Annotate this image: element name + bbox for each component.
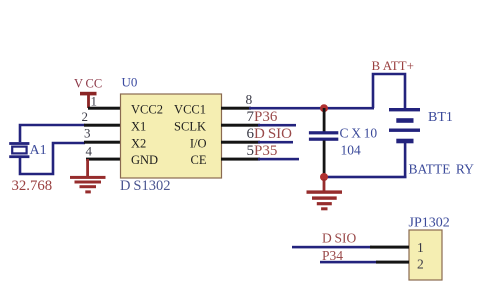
wire: crystal bottom loop to X2 bbox=[20, 143, 85, 174]
svg-text:VCC1: VCC1 bbox=[174, 103, 206, 117]
svg-text:CE: CE bbox=[191, 153, 207, 167]
svg-text:D S1302: D S1302 bbox=[120, 178, 170, 194]
svg-text:BATTE RY: BATTE RY bbox=[409, 162, 475, 177]
capacitor CX10 stem top bbox=[323, 108, 326, 132]
svg-text:1: 1 bbox=[91, 94, 98, 109]
wire: P34 net bbox=[320, 261, 378, 264]
wire: pin6 stub bbox=[221, 141, 260, 144]
wire: pin6 net DSIO bbox=[258, 141, 293, 144]
wire: pin7 stub bbox=[221, 124, 260, 127]
wire: JP pin1 stub bbox=[370, 246, 409, 249]
wire: X1 net from IC pin2 to crystal top bbox=[20, 125, 85, 142]
svg-text:X1: X1 bbox=[131, 120, 146, 134]
svg-text:GND: GND bbox=[131, 153, 158, 167]
svg-text:3: 3 bbox=[84, 126, 91, 141]
wire: battery bottom lead bbox=[404, 143, 407, 178]
capacitor stem bottom bbox=[323, 141, 326, 178]
svg-text:BT1: BT1 bbox=[428, 110, 453, 125]
connector JP1302 box bbox=[409, 230, 442, 280]
svg-text:SCLK: SCLK bbox=[174, 120, 206, 134]
wire: JP pin2 stub bbox=[376, 261, 409, 264]
wire: pin5 net P35 bbox=[258, 158, 299, 161]
svg-text:C X 10: C X 10 bbox=[340, 126, 378, 141]
crystal A1 bbox=[9, 142, 29, 158]
wire: pin7 net P36 bbox=[258, 124, 296, 127]
svg-text:X2: X2 bbox=[131, 137, 146, 151]
power VCC symbol bbox=[80, 92, 97, 108]
svg-text:V CC: V CC bbox=[74, 77, 102, 91]
svg-text:A1: A1 bbox=[30, 143, 47, 158]
svg-text:5P35: 5P35 bbox=[247, 143, 278, 159]
svg-text:U0: U0 bbox=[122, 75, 138, 90]
wire: pin4 stub bbox=[86, 158, 121, 161]
ground under pin4 bbox=[70, 159, 106, 193]
wire: bottom net junction to battery bbox=[324, 176, 407, 179]
wire: pin3 stub bbox=[84, 141, 121, 144]
wire: pin8 stub bbox=[221, 107, 251, 110]
wire: pin5 stub bbox=[221, 158, 260, 161]
capacitor CX10 plates bbox=[309, 131, 338, 141]
wire: DSIO net bbox=[292, 246, 372, 249]
node: junction bottom bbox=[320, 173, 328, 181]
svg-text:2: 2 bbox=[82, 109, 89, 124]
svg-text:VCC2: VCC2 bbox=[131, 103, 163, 117]
svg-text:104: 104 bbox=[341, 143, 362, 158]
wire: pin1 stub bbox=[88, 107, 121, 110]
svg-text:B ATT+: B ATT+ bbox=[372, 58, 414, 73]
node: junction top bbox=[320, 104, 328, 112]
svg-text:8: 8 bbox=[246, 92, 253, 107]
svg-text:1: 1 bbox=[417, 240, 424, 255]
svg-text:4: 4 bbox=[86, 144, 93, 159]
svg-text:2: 2 bbox=[417, 257, 424, 272]
ground under capacitor bbox=[307, 179, 343, 210]
wire: pin2 stub bbox=[84, 124, 121, 127]
op IC U0 DS1302 box bbox=[121, 94, 222, 178]
svg-text:I/O: I/O bbox=[190, 137, 207, 151]
svg-text:32.768: 32.768 bbox=[12, 178, 53, 194]
wire: junction to battery top bbox=[373, 74, 405, 109]
svg-text:JP1302: JP1302 bbox=[409, 216, 450, 231]
svg-text:D SIO: D SIO bbox=[322, 231, 356, 246]
battery BT1 bbox=[389, 108, 420, 143]
svg-text:7P36: 7P36 bbox=[247, 109, 278, 125]
svg-text:P34: P34 bbox=[322, 248, 343, 263]
wire: pin8 net to junction bbox=[249, 107, 374, 110]
svg-text:6D SIO: 6D SIO bbox=[247, 126, 293, 142]
